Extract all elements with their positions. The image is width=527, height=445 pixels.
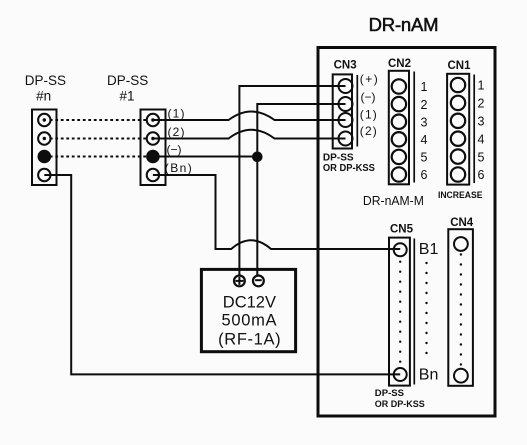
svg-text:DP-SS: DP-SS (107, 73, 148, 88)
svg-text:3: 3 (421, 115, 428, 129)
wire (-) DP-SS#1 pin3 to junction (153, 156, 257, 158)
svg-text:DP-SS: DP-SS (25, 73, 66, 88)
svg-text:5: 5 (478, 150, 485, 164)
svg-text:Bn: Bn (419, 367, 439, 384)
label DP-SS OR DP-KSS (under CN5) (375, 388, 425, 410)
svg-text:INCREASE: INCREASE (438, 190, 483, 201)
CN2 pin numbers 1-6 (421, 80, 428, 182)
dashed wire row1 DP-SS#n to DP-SS#1 (44, 119, 153, 121)
svg-text:CN5: CN5 (390, 223, 414, 235)
dashed wire row3 DP-SS#n to DP-SS#1 (44, 156, 153, 158)
CN4 dotted pin column (460, 253, 462, 365)
label DP-SS #1 (107, 73, 148, 103)
svg-text:(−): (−) (361, 90, 376, 104)
wire (2) DP-SS#1 pin2 to CN3 pin4 (with hop) (153, 130, 346, 139)
wire DC12V minus: CN3 pin2 to - terminal (257, 104, 345, 276)
svg-text:1: 1 (421, 80, 428, 94)
wire Bn chain from DP-SS#n pin4 to CN5 bottom (44, 175, 400, 374)
svg-text:OR DP-KSS: OR DP-KSS (375, 399, 425, 410)
svg-text:4: 4 (478, 132, 485, 146)
wire (1) DP-SS#1 pin1 to CN3 pin3 (with hop) (153, 112, 346, 121)
connector DP-SS #n (32, 110, 57, 186)
svg-text:(+): (+) (360, 72, 378, 86)
svg-text:B1: B1 (419, 241, 439, 258)
connector CN2 (389, 71, 414, 185)
svg-text:5: 5 (421, 151, 428, 165)
svg-text:DC12V: DC12V (223, 294, 276, 312)
wire DC12V plus: CN3 pin1 to + terminal (239, 86, 345, 276)
svg-text:2: 2 (421, 98, 428, 112)
svg-text:2: 2 (478, 97, 485, 111)
junction dot on minus net (252, 152, 263, 163)
svg-text:#1: #1 (119, 89, 134, 104)
wire B1 from DP-SS#1 pin4 to CN5 top (with hop) (153, 175, 400, 249)
svg-text:(1): (1) (168, 107, 185, 121)
svg-text:DR-nAM-M: DR-nAM-M (363, 194, 424, 208)
svg-text:6: 6 (478, 168, 485, 182)
dashed wire row2 DP-SS#n to DP-SS#1 (44, 138, 153, 140)
svg-text:4: 4 (421, 133, 428, 147)
svg-text:CN2: CN2 (388, 58, 411, 70)
terminal + of DC12V (234, 276, 245, 287)
connector DP-SS #1 (141, 110, 166, 186)
svg-text:CN1: CN1 (447, 60, 471, 72)
svg-text:3: 3 (478, 115, 485, 129)
label DP-SS OR DP-KSS (under CN3) (323, 153, 375, 175)
svg-text:(2): (2) (360, 124, 377, 138)
svg-text:500mA: 500mA (222, 312, 277, 330)
svg-text:OR DP-KSS: OR DP-KSS (323, 163, 375, 174)
svg-text:CN4: CN4 (450, 217, 474, 229)
svg-text:1: 1 (478, 79, 485, 93)
svg-text:(1): (1) (360, 107, 377, 121)
connector CN3 (333, 74, 358, 148)
connector CN4 (448, 229, 473, 386)
CN5 dotted pin column (399, 261, 401, 363)
svg-text:DP-SS: DP-SS (323, 153, 354, 164)
connector CN5 (389, 238, 414, 386)
dotted column between B1 and Bn (425, 262, 427, 354)
svg-text:6: 6 (421, 168, 428, 182)
label DP-SS #n (25, 73, 66, 103)
svg-text:CN3: CN3 (334, 59, 357, 71)
svg-text:DP-SS: DP-SS (375, 388, 404, 399)
connector CN1 (447, 74, 474, 185)
svg-text:(RF-1A): (RF-1A) (218, 330, 281, 348)
svg-text:(−): (−) (167, 143, 182, 157)
svg-text:#n: #n (36, 89, 51, 104)
DR-nAM box (318, 48, 495, 417)
CN1 pin numbers 1-6 (478, 79, 485, 183)
svg-text:(2): (2) (168, 125, 185, 139)
power supply DC12V box (201, 269, 295, 351)
terminal - of DC12V (253, 276, 264, 287)
svg-text:DR-nAM: DR-nAM (369, 14, 439, 35)
